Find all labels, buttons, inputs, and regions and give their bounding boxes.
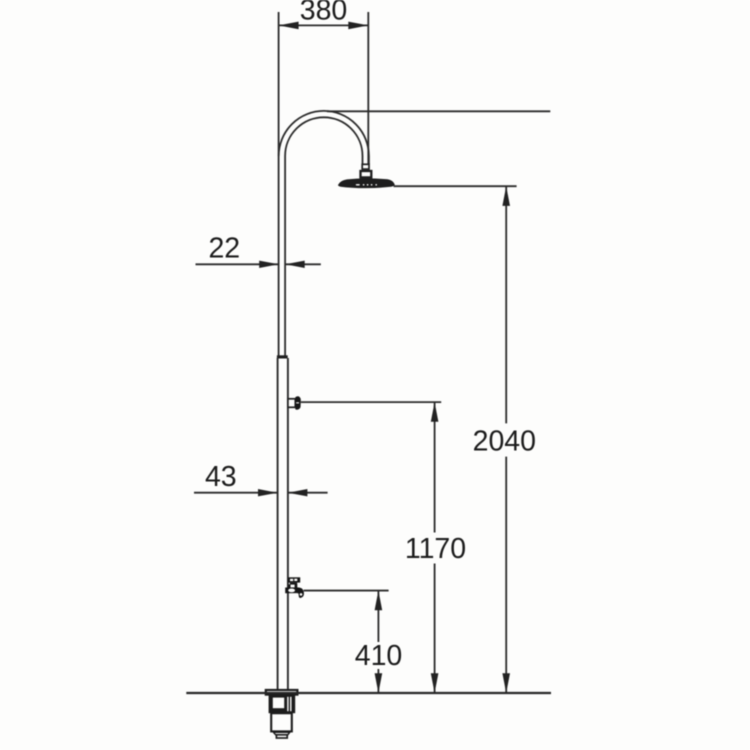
dim 380 right extension line (367, 12, 369, 164)
drain body window (273, 698, 284, 709)
dim 410 vertical line lower segment with down arrow (375, 669, 383, 693)
svg-text:2040: 2040 (473, 425, 536, 457)
svg-text:43: 43 (205, 461, 237, 493)
dim 22 right line and arrow (285, 261, 321, 268)
drain tip (276, 735, 287, 738)
upper valve stub (288, 399, 295, 408)
dim 380 left extension line (continues as pole left edge) (278, 12, 280, 356)
faucet spout notch (300, 593, 303, 596)
faucet body interior (288, 589, 295, 593)
dim 410 top extension line (304, 590, 389, 592)
dim 2040 vertical line upper segment with up arrow (502, 186, 510, 423)
top reference line (327, 110, 550, 112)
faucet handle notches (290, 579, 293, 581)
drain flange (266, 690, 298, 695)
gooseneck outer arc (279, 111, 369, 164)
dim 2040 top extension line (394, 185, 517, 187)
dim 380 dimension line (279, 22, 369, 30)
drain body hatch slits (287, 697, 288, 711)
lower pole right line (287, 358, 289, 690)
shower arm collar (362, 164, 369, 169)
dim 410 vertical line upper segment with up arrow (375, 591, 383, 642)
faucet body and spout (285, 587, 304, 598)
dim 1170 vertical line upper segment with up arrow (431, 402, 439, 532)
pole joint (277, 355, 288, 358)
svg-text:1170: 1170 (405, 533, 466, 565)
svg-text:410: 410 (355, 640, 403, 672)
drain body (269, 695, 296, 714)
gooseneck inner arc (285, 117, 362, 164)
shower head nozzle dots (356, 184, 377, 186)
dim 1170 top extension line (301, 401, 441, 403)
shower arm nut (361, 171, 372, 177)
svg-text:380: 380 (300, 0, 348, 27)
ground line (186, 692, 551, 694)
drain taper (273, 732, 289, 735)
upper valve knob (295, 396, 301, 409)
svg-text:22: 22 (208, 233, 240, 265)
dim 43 left line and arrow (194, 489, 277, 496)
dim 1170 vertical line lower segment with down arrow (431, 564, 439, 694)
upper pole right line (284, 156, 286, 356)
faucet handle (288, 577, 300, 582)
upper valve knob slit (296, 402, 299, 403)
faucet neck right side (295, 584, 298, 588)
dim 22 left line and arrow (196, 261, 279, 268)
faucet stem (290, 583, 297, 585)
faucet neck left side (288, 584, 290, 588)
dim 43 right line and arrow (288, 489, 328, 496)
shower head (338, 178, 395, 188)
lower pole left line (277, 358, 279, 690)
drain cylinder (271, 713, 292, 731)
dim 2040 vertical line lower segment with down arrow (502, 457, 510, 693)
